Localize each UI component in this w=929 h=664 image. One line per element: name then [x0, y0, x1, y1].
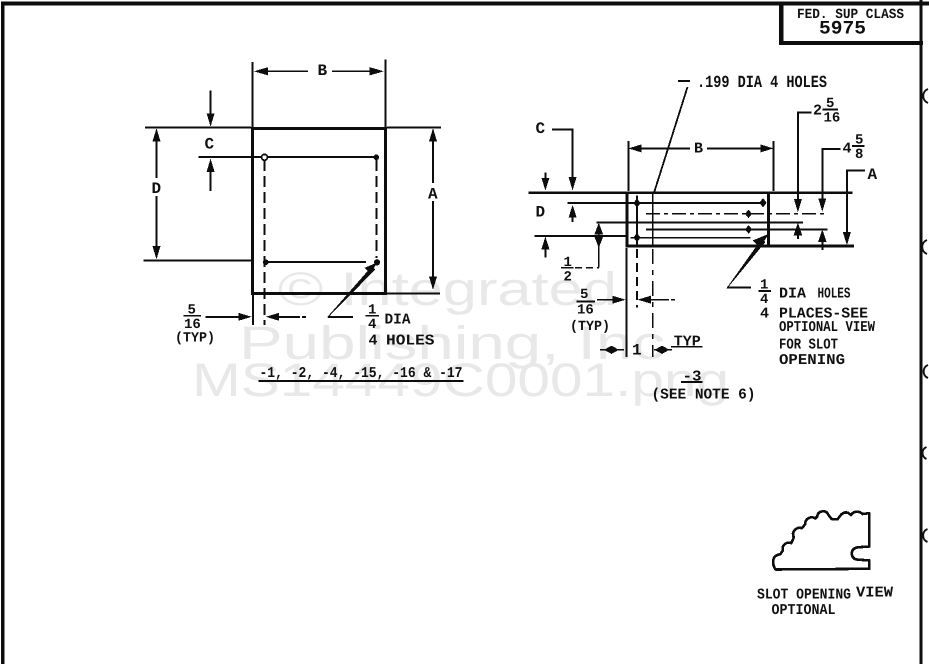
C leader bent line with arrow: [552, 129, 573, 131]
page right border: [920, 0, 923, 664]
svg-text:OPTIONAL: OPTIONAL: [772, 602, 836, 619]
leader 2 5/16: [797, 112, 812, 114]
small down arrow left of plate: [545, 173, 547, 181]
svg-text:16: 16: [824, 110, 841, 126]
hole centerline left column: [264, 160, 266, 325]
lower up arrow 4 5/8: [818, 229, 827, 242]
dimension A line with arrows: [429, 128, 437, 141]
fraction bar dashes to arrow stem: [575, 267, 599, 269]
up arrow lower-left of plate: [541, 237, 549, 250]
side plate outline: [626, 192, 629, 248]
extension line top-left of plate: [145, 127, 251, 129]
svg-text:16: 16: [577, 303, 594, 319]
dimension D line with arrows: [153, 128, 161, 141]
hole centerline column 1 below plate: [636, 196, 638, 246]
extension line top-right of plate: [387, 127, 441, 129]
svg-text:2: 2: [813, 102, 822, 119]
B extension verticals: [627, 141, 629, 191]
svg-text:2: 2: [564, 269, 572, 285]
svg-text:OPTIONAL VIEW: OPTIONAL VIEW: [779, 319, 875, 336]
lower up arrow 2 5/16: [794, 223, 803, 236]
leader to hole bottom-right: [328, 316, 353, 318]
svg-text:D: D: [536, 204, 546, 222]
title block bottom edge: [779, 41, 923, 45]
svg-text:5: 5: [580, 287, 588, 303]
title block left edge: [779, 2, 784, 44]
dimension B line: [628, 144, 641, 152]
svg-text:.199 DIA 4 HOLES: .199 DIA 4 HOLES: [697, 74, 827, 93]
center dash-dot line: [646, 213, 826, 215]
plate left edge extended below: [625, 248, 627, 357]
svg-text:4: 4: [843, 140, 852, 157]
leader from 1/4 DIA HOLES to plate: [727, 287, 751, 289]
svg-text:A: A: [428, 186, 438, 204]
hole row line top: [199, 156, 375, 158]
dimension 1 TYP left arrow: [600, 349, 624, 351]
hole top-right: [374, 155, 380, 161]
page left border: [1, 2, 5, 664]
svg-text:TYP: TYP: [674, 333, 701, 350]
svg-text:D: D: [152, 180, 162, 198]
svg-text:B: B: [318, 62, 328, 80]
svg-text:VIEW: VIEW: [856, 585, 893, 602]
hole bottom-left: [263, 259, 269, 265]
svg-text:A: A: [868, 166, 878, 184]
dimension 5/16 arrows side view: [597, 299, 614, 301]
leader line .199 to plate: [654, 87, 688, 194]
dimension C lower arrow: [207, 159, 215, 172]
svg-text:DIA: DIA: [779, 286, 806, 303]
extension line lower-left row: [144, 260, 254, 262]
extension line bottom-right of plate: [387, 293, 440, 295]
leader 4 5/8: [821, 148, 840, 150]
hole top-left (open circle): [262, 154, 268, 160]
svg-text:(SEE NOTE 6): (SEE NOTE 6): [652, 387, 756, 404]
svg-text:HOLES: HOLES: [818, 286, 851, 303]
binder hole arcs right edge: [922, 89, 928, 542]
svg-text:8: 8: [855, 147, 863, 163]
center line diamond: [745, 210, 752, 219]
svg-text:B: B: [694, 140, 703, 157]
dimension C upper arrow: [210, 91, 212, 115]
dimension 1 TYP right arrow: [654, 349, 672, 351]
dimension 5/16 arrows: [206, 316, 240, 318]
row 4 diamond: [745, 225, 752, 234]
dimension B extension line left: [252, 62, 254, 127]
hole row 1 right hole: [759, 198, 766, 207]
slot opening outline: [773, 511, 869, 569]
page top border: [1, 2, 929, 6]
hole row 1 left hole: [634, 198, 641, 207]
leader A: [846, 170, 865, 172]
dimension B extension line right: [385, 60, 387, 128]
leader hook for .199: [678, 80, 690, 82]
svg-text:5975: 5975: [819, 18, 866, 40]
row 5 left hole: [634, 233, 641, 242]
svg-text:HOLES: HOLES: [386, 333, 435, 350]
hole centerline column 2: [652, 194, 654, 246]
svg-text:4: 4: [368, 317, 376, 333]
row 3 line: [597, 221, 804, 223]
hole bottom-right: [374, 259, 380, 265]
svg-text:-1, -2, -4, -15, -16 & -17: -1, -2, -4, -15, -16 & -17: [260, 365, 463, 382]
dimension 1/2 arrows: [594, 223, 603, 235]
front plate outline: [251, 127, 254, 295]
hole row line bottom: [266, 261, 366, 263]
svg-text:OPENING: OPENING: [779, 352, 845, 369]
row 5 line: [631, 237, 751, 239]
svg-text:FOR SLOT: FOR SLOT: [779, 336, 838, 353]
plate left edge extended below: [252, 295, 254, 325]
svg-text:1: 1: [632, 342, 642, 360]
dimension B line: [254, 67, 268, 75]
svg-text:(TYP): (TYP): [175, 331, 215, 347]
row 5 extension left: [535, 235, 627, 237]
svg-text:(TYP): (TYP): [570, 319, 610, 335]
svg-text:C: C: [536, 120, 546, 138]
svg-text:C: C: [205, 136, 215, 154]
svg-text:4: 4: [760, 305, 769, 322]
hole centerline right column: [375, 160, 377, 258]
D up arrow: [569, 205, 577, 218]
top surface line: [529, 191, 853, 194]
svg-text:4: 4: [369, 333, 378, 350]
dash variants underline: [259, 380, 464, 382]
hole row 1 line: [568, 202, 764, 204]
svg-text:DIA: DIA: [385, 311, 411, 328]
row 4 line: [646, 228, 828, 230]
